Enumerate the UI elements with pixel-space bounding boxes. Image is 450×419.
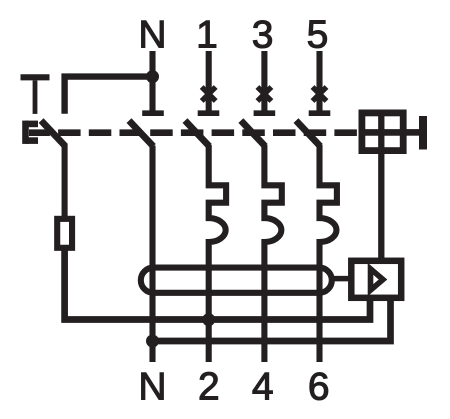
- pole 3 path: thermal element, magnetic coil, load conductor 4: [264, 145, 281, 362]
- fixed contact bar pole N: [142, 110, 164, 116]
- fixed contact bar pole 1: [198, 110, 220, 116]
- trip relay triangle: [371, 269, 384, 290]
- breaker-function X symbol pole 5: [313, 87, 327, 101]
- breaker-function X symbol pole 3: [257, 87, 271, 101]
- svg-text:1: 1: [196, 13, 218, 56]
- lower bus: N load to relay: [153, 301, 391, 341]
- toroidal current transformer: [141, 268, 332, 293]
- fixed contact bar pole 3: [254, 110, 276, 116]
- svg-text:4: 4: [252, 365, 274, 408]
- wire: pole 5 supply stub: [316, 51, 322, 113]
- mechanism cross bar: [359, 129, 407, 136]
- svg-text:3: 3: [252, 13, 274, 56]
- test contact blade: [41, 121, 65, 147]
- wire: relay to breaker mechanism: [378, 111, 384, 259]
- contact blade pole 5: [296, 121, 320, 147]
- wire: pole 3 supply stub: [261, 51, 267, 113]
- pole 1 path: thermal element, magnetic coil, load conductor 2: [209, 145, 226, 362]
- breaker-function X symbol pole 1: [202, 87, 216, 101]
- manual drive bracket (left end of linkage): [26, 121, 39, 144]
- contact blade pole 3: [241, 121, 265, 147]
- junction dot at N / test wire: [146, 70, 159, 83]
- svg-text:N: N: [138, 365, 166, 408]
- svg-text:N: N: [138, 13, 166, 56]
- breaker mechanism box: [362, 113, 403, 151]
- svg-text:6: 6: [308, 365, 330, 408]
- junction dot on upper bus at conductor 2: [202, 313, 215, 326]
- svg-text:2: 2: [198, 365, 220, 408]
- wire: resistor to upper bottom bus, corner up to relay: [65, 248, 370, 320]
- wire: test branch down to resistor: [62, 145, 68, 217]
- wire: pole N through toroid to bottom terminal: [149, 146, 155, 363]
- test wire from button contact to N junction: [65, 77, 153, 114]
- right terminal bar: [419, 116, 427, 150]
- wire: pole 1 supply stub: [206, 51, 212, 113]
- junction dot on lower bus at N: [146, 335, 159, 348]
- fixed contact bar pole 5: [309, 110, 331, 116]
- dashed mechanical linkage line: [29, 129, 359, 136]
- test resistor: [57, 219, 72, 248]
- contact blade pole N: [129, 121, 153, 147]
- test button actuator T: [21, 77, 50, 114]
- pole 5 path: thermal element, magnetic coil, load conductor 6: [320, 145, 337, 362]
- trip relay box U1: [351, 261, 401, 298]
- wire: mechanism to right terminal: [407, 129, 420, 136]
- wire: N supply stub: [149, 51, 155, 113]
- svg-text:5: 5: [307, 13, 329, 56]
- contact blade pole 1: [185, 121, 209, 147]
- wire: toroid secondary to trip relay: [334, 276, 350, 282]
